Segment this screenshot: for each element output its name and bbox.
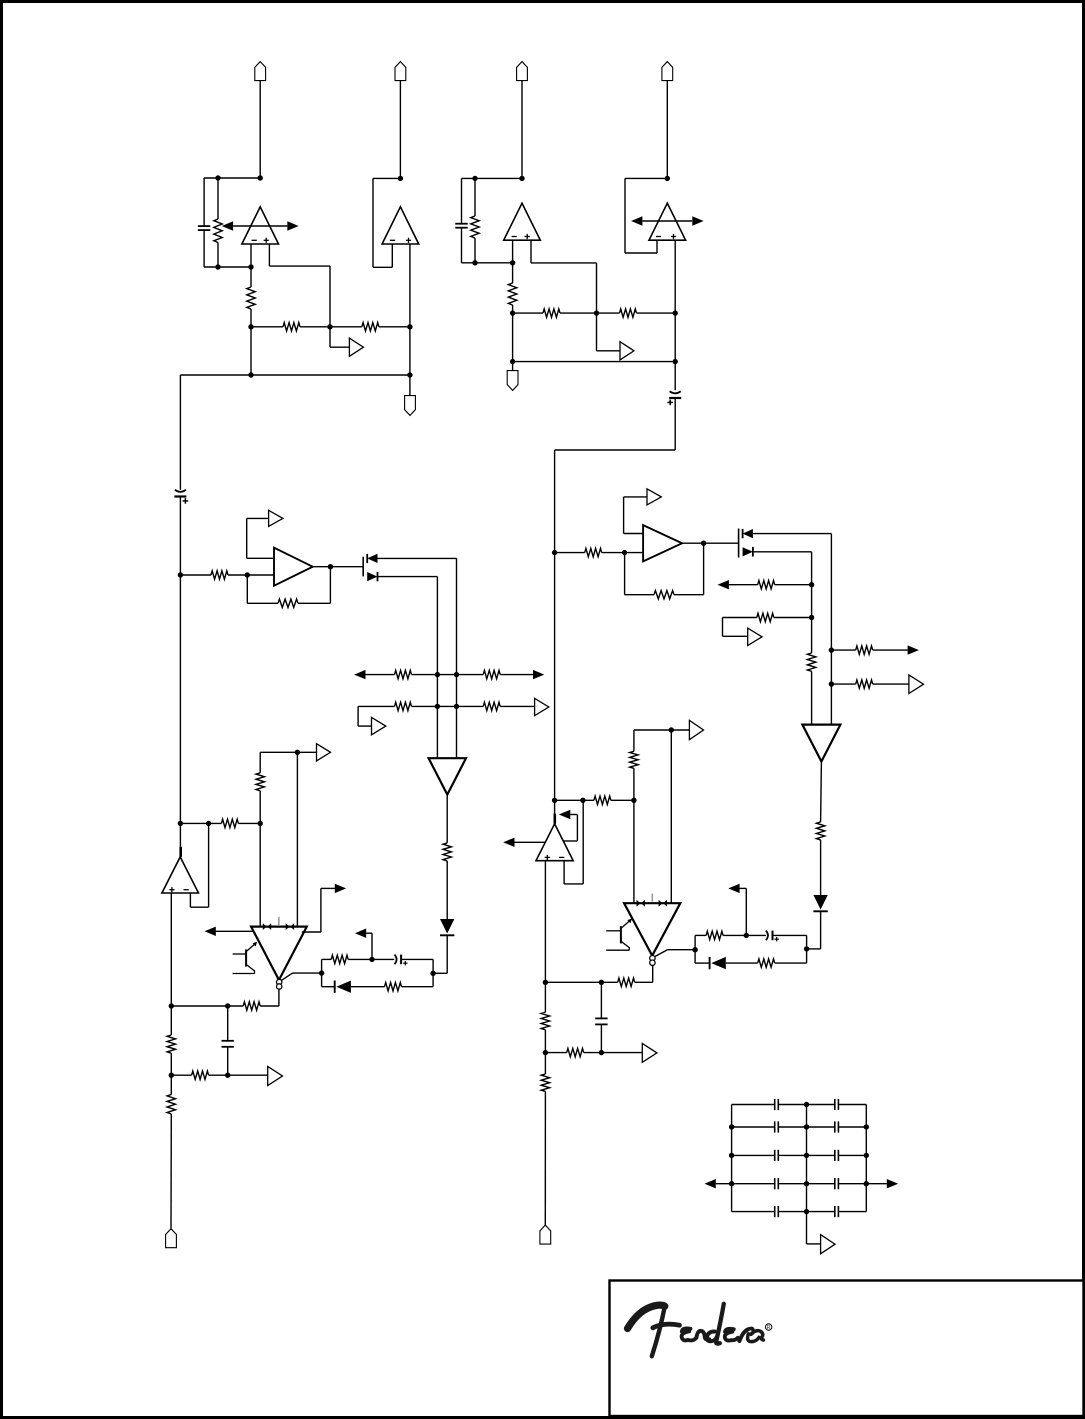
wire [190, 906, 208, 908]
capacitor C11 [774, 1121, 776, 1132]
plus label [264, 239, 269, 241]
resistor R37 [541, 1012, 549, 1030]
wire [379, 326, 410, 328]
wire [351, 986, 385, 988]
op-amp U9 [643, 525, 682, 561]
wire [247, 517, 269, 519]
wire [246, 518, 248, 558]
wire [596, 263, 598, 313]
wire [544, 982, 546, 1012]
node [829, 681, 834, 686]
transistor Q2 [233, 953, 247, 955]
wire [433, 972, 447, 974]
resistor R3 [283, 323, 300, 331]
wire [432, 959, 434, 986]
wire [461, 178, 463, 223]
wire [329, 327, 331, 347]
connector J4 [662, 62, 673, 81]
transistor Q3 [738, 529, 740, 558]
wire [624, 178, 626, 253]
wire [723, 934, 766, 936]
wire [633, 768, 635, 800]
connector J7 [166, 1229, 177, 1248]
wire [269, 265, 330, 267]
capacitor C6 [222, 1040, 234, 1042]
plus label [671, 236, 676, 238]
logo box [610, 1281, 1084, 1417]
resistor R9 [211, 571, 228, 579]
node [178, 572, 183, 577]
resistor R15 [443, 843, 451, 861]
node [248, 264, 253, 269]
wire [576, 815, 578, 842]
wire [282, 973, 293, 980]
connector J1 [255, 62, 266, 81]
node [580, 798, 585, 803]
wire [298, 602, 330, 604]
wire [372, 178, 374, 267]
wire [723, 617, 757, 619]
wire [873, 683, 909, 685]
node [510, 310, 515, 315]
buffer B3 [269, 510, 283, 526]
wire [373, 266, 392, 268]
node [864, 1153, 869, 1158]
node [631, 798, 636, 803]
node [258, 175, 263, 180]
wire [570, 814, 577, 816]
capacitor C13 [774, 1150, 776, 1161]
wire [302, 931, 321, 933]
capacitor C14 [834, 1150, 836, 1161]
wire [674, 398, 676, 450]
wire [247, 602, 278, 604]
wire [637, 312, 676, 314]
wire [399, 81, 401, 179]
wire [554, 450, 556, 800]
wire [633, 800, 635, 903]
resistor R31 [816, 822, 824, 840]
wire [358, 725, 371, 727]
node [729, 1181, 734, 1186]
output bubble [277, 979, 282, 984]
wire [321, 959, 323, 986]
wire [732, 1104, 775, 1106]
wire [865, 1105, 867, 1212]
svg-text:R: R [767, 1325, 771, 1331]
wire [170, 1006, 172, 1035]
wire [322, 958, 332, 960]
node [225, 1073, 230, 1078]
wire [703, 543, 705, 595]
wire [233, 225, 287, 227]
wire [655, 950, 667, 957]
wire [215, 930, 255, 932]
node [225, 1003, 230, 1008]
comparator U8 [251, 927, 307, 980]
resistor R20 [243, 1002, 260, 1010]
wire [807, 1126, 835, 1128]
resistor R38 [567, 1048, 584, 1056]
strobe mark [278, 917, 280, 925]
strobe mark [651, 894, 653, 902]
node [169, 1003, 174, 1008]
resistor R10 [278, 599, 298, 607]
wire [217, 243, 219, 268]
wire [378, 576, 438, 578]
diode D7 [813, 895, 827, 910]
buffer B13 [821, 1235, 835, 1254]
wire [531, 262, 597, 264]
wire [838, 1126, 866, 1128]
plus label [545, 856, 550, 858]
op-amp U1 [242, 207, 279, 244]
wire [300, 326, 330, 328]
wire [259, 81, 261, 178]
node [673, 310, 678, 315]
wire [259, 823, 261, 926]
op-amp U3 [504, 203, 541, 240]
wire [544, 1091, 546, 1225]
wire [582, 800, 584, 884]
node [206, 821, 211, 826]
arrow out [335, 884, 346, 893]
wire [807, 1211, 835, 1213]
resistor R17 [256, 773, 264, 791]
node [472, 260, 477, 265]
wire [670, 730, 672, 903]
wire [774, 617, 812, 619]
wire [584, 1052, 602, 1054]
node [729, 1124, 734, 1129]
wire [722, 618, 724, 637]
wire [320, 888, 322, 932]
wire [250, 267, 252, 287]
wire [391, 244, 393, 267]
wire [625, 252, 657, 254]
capacitor C10 [834, 1099, 836, 1110]
wire [461, 228, 463, 263]
transistor Q1 [362, 557, 364, 577]
diode D6 [752, 547, 754, 557]
wire [811, 671, 813, 724]
wire [409, 375, 411, 396]
wire [778, 1211, 806, 1213]
wire [732, 1154, 775, 1156]
output arrow [692, 216, 703, 225]
node [804, 1124, 809, 1129]
wire [474, 178, 476, 216]
inverting input mark [553, 814, 556, 824]
wire [600, 1024, 602, 1052]
input mark [263, 923, 267, 930]
wire [838, 1104, 866, 1106]
wire [723, 635, 748, 637]
resistor R6 [508, 283, 516, 305]
node [543, 1050, 548, 1055]
wire [250, 244, 252, 267]
resistor R7 [543, 309, 560, 317]
diode D5 [742, 529, 744, 538]
input mark [637, 900, 641, 907]
op-amp U11 [536, 824, 573, 861]
diode D2 [377, 572, 379, 581]
node [729, 1153, 734, 1158]
wire [322, 986, 335, 988]
node [692, 947, 697, 952]
wire [563, 861, 565, 884]
node [701, 541, 706, 546]
wire [259, 752, 261, 773]
arrow out [355, 929, 366, 938]
wire [373, 177, 400, 179]
wire [555, 552, 585, 554]
resistor R16 [221, 819, 238, 827]
capacitor C2 [455, 223, 467, 225]
wire [371, 933, 373, 959]
wire [170, 1075, 172, 1094]
wire [597, 312, 620, 314]
node [430, 971, 435, 976]
node [435, 672, 440, 677]
inverting input mark [179, 847, 182, 857]
node [328, 564, 333, 569]
resistor R12 [483, 670, 500, 678]
resistor R25 [654, 591, 674, 599]
wire [806, 935, 808, 963]
node [552, 550, 557, 555]
wire [866, 1183, 887, 1185]
hook arrow [559, 810, 570, 819]
wire [625, 552, 644, 554]
wire [596, 313, 598, 351]
minus label [656, 236, 661, 238]
wire [512, 313, 514, 362]
node [248, 372, 253, 377]
wire [694, 935, 696, 963]
potentiometer R1 [214, 219, 222, 243]
resistor R21 [167, 1035, 175, 1053]
wire [838, 1154, 866, 1156]
wire [204, 177, 260, 179]
wire [462, 177, 523, 179]
wire [732, 1183, 775, 1185]
resistor R35 [758, 959, 775, 967]
wire [513, 312, 543, 314]
capacitor C18 [834, 1206, 836, 1217]
wire [247, 574, 274, 576]
wire [170, 1114, 172, 1229]
op-amp U5 [274, 548, 313, 586]
node [454, 704, 459, 709]
wire [806, 1105, 808, 1212]
wire [545, 1052, 566, 1054]
wire [726, 962, 758, 964]
node [804, 946, 809, 951]
node [809, 615, 814, 620]
capacitor C9 [774, 1099, 776, 1110]
wire [831, 683, 855, 685]
Fender logo [628, 1304, 764, 1357]
op-amp U2 [382, 207, 419, 244]
resistor R39 [541, 1074, 549, 1091]
wire [729, 584, 758, 586]
transistor Q4 [606, 930, 621, 932]
buffer B6 [317, 744, 331, 761]
wire [807, 948, 821, 950]
wire [563, 840, 577, 842]
node [327, 324, 332, 329]
comparator U12 [624, 903, 680, 956]
node [407, 372, 412, 377]
node [829, 647, 834, 652]
capacitor C17 [774, 1206, 776, 1217]
minus label [390, 239, 395, 241]
resistor R5 [471, 216, 479, 238]
minus label [512, 236, 517, 238]
wire [227, 1006, 229, 1040]
capacitor C12 [834, 1121, 836, 1132]
wire [227, 1047, 229, 1075]
wire [247, 557, 274, 559]
buffer B7 [268, 1067, 283, 1086]
node [519, 176, 524, 181]
node [622, 550, 627, 555]
wire [402, 986, 434, 988]
buffer B5 [535, 698, 549, 715]
wire [564, 883, 583, 885]
op-amp U7 [162, 857, 199, 893]
wire [259, 791, 261, 824]
wire [251, 326, 283, 328]
wire [268, 244, 270, 266]
node [673, 359, 678, 364]
arrow out [533, 670, 544, 679]
wire [778, 1154, 806, 1156]
wire [366, 674, 395, 676]
node [599, 1050, 604, 1055]
wire [189, 893, 191, 907]
buffer B11 [689, 720, 703, 739]
wire [357, 706, 359, 726]
wire [512, 362, 514, 371]
wire [642, 220, 692, 222]
node [295, 750, 300, 755]
wiper arrow [222, 221, 233, 230]
wire [348, 958, 394, 960]
wire [624, 496, 647, 498]
wire [601, 1052, 642, 1054]
wire [462, 262, 513, 264]
resistor R2 [247, 287, 255, 309]
wire [250, 309, 252, 327]
node [407, 324, 412, 329]
wire [807, 1183, 835, 1185]
resistor R28 [757, 613, 774, 621]
wire [753, 551, 812, 553]
arrow out [705, 1179, 716, 1188]
wire [412, 674, 457, 676]
node [665, 176, 670, 181]
node [804, 1209, 809, 1214]
wire [366, 932, 372, 934]
wire [204, 266, 251, 268]
wire [753, 533, 832, 535]
wire [358, 705, 394, 707]
resistor R23 [167, 1095, 175, 1114]
node [215, 264, 220, 269]
wire [838, 1211, 866, 1213]
arrow out [354, 670, 365, 679]
resistor R24 [585, 548, 602, 556]
polarized capacitor C3 [670, 391, 681, 393]
arrow out [908, 645, 919, 654]
wire [611, 799, 634, 801]
wire [500, 674, 533, 676]
wire [811, 552, 813, 653]
wire [446, 935, 448, 973]
wire [807, 1104, 835, 1106]
node [552, 798, 557, 803]
wire [634, 729, 671, 731]
wire [635, 981, 653, 983]
inverter U10 [802, 725, 840, 762]
wire [521, 81, 523, 179]
wire [624, 533, 644, 535]
minus label [252, 239, 257, 241]
resistor R13 [395, 702, 412, 710]
wire [807, 1243, 821, 1245]
wire [745, 888, 747, 935]
wire [667, 949, 695, 951]
wire [732, 1211, 775, 1213]
wire [180, 822, 221, 824]
buffer B8 [647, 489, 661, 505]
wire [228, 574, 247, 576]
wire [820, 762, 823, 822]
wire [474, 238, 476, 263]
input mark [659, 900, 663, 907]
resistor R14 [483, 702, 500, 710]
wire [656, 240, 658, 253]
wire [297, 751, 316, 753]
node [744, 933, 749, 938]
node [864, 1124, 869, 1129]
wire [600, 982, 602, 1017]
node [435, 704, 440, 709]
wire [695, 962, 710, 964]
arrow out [718, 580, 729, 589]
wire [560, 312, 597, 314]
wire [555, 799, 594, 801]
wire [313, 566, 363, 568]
wire [171, 1005, 243, 1007]
buffer B2 [620, 342, 634, 360]
wire [544, 1030, 546, 1053]
node [510, 359, 515, 364]
node [543, 980, 548, 985]
wire [623, 497, 625, 534]
wire [446, 861, 448, 919]
wire [530, 240, 532, 263]
op-amp U4 [649, 203, 686, 240]
resistor R26 [807, 653, 815, 671]
wire [674, 240, 676, 390]
diode D3 [440, 919, 454, 934]
wire [228, 1074, 268, 1076]
node [599, 980, 604, 985]
wire [666, 81, 668, 179]
